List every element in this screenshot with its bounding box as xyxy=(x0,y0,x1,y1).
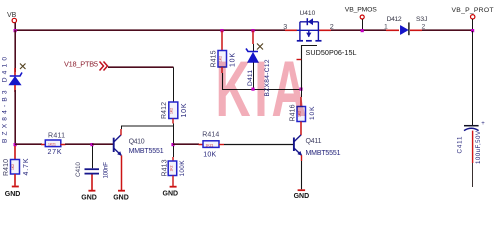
svg-text:10K: 10K xyxy=(203,151,216,158)
wire xyxy=(285,29,297,31)
DNP mark xyxy=(257,44,263,50)
svg-text:GND: GND xyxy=(294,193,310,200)
wire xyxy=(172,176,174,187)
svg-text:VB: VB xyxy=(7,12,17,19)
wire xyxy=(422,29,473,31)
capacitor C410 xyxy=(75,162,110,179)
wire xyxy=(301,161,303,189)
svg-text:GND: GND xyxy=(113,195,129,202)
wire xyxy=(252,31,254,45)
wire xyxy=(173,143,199,145)
svg-text:3: 3 xyxy=(283,22,287,31)
wire xyxy=(223,73,302,90)
svg-text:100uF,50V: 100uF,50V xyxy=(475,130,482,164)
diode D412 xyxy=(384,16,428,35)
wire xyxy=(331,29,386,31)
wire xyxy=(253,44,255,52)
wire xyxy=(92,146,94,168)
svg-text:10K: 10K xyxy=(181,103,188,117)
svg-text:GND: GND xyxy=(163,191,179,198)
svg-text:100nF: 100nF xyxy=(103,162,110,179)
svg-text:D412: D412 xyxy=(387,16,402,23)
node junction xyxy=(471,29,474,32)
svg-text:MMBT5551: MMBT5551 xyxy=(129,148,164,155)
wire emitter xyxy=(121,155,123,190)
wire xyxy=(300,97,302,107)
wire xyxy=(14,85,16,92)
svg-text:1K2: 1K2 xyxy=(170,165,174,171)
svg-text:R411: R411 xyxy=(48,133,65,140)
svg-text:V18_PTB5: V18_PTB5 xyxy=(64,60,98,69)
svg-text:27K: 27K xyxy=(48,149,62,156)
ground xyxy=(81,190,97,202)
svg-text:C411: C411 xyxy=(457,136,464,154)
svg-text:1K2: 1K2 xyxy=(11,164,15,170)
resistor R415 xyxy=(211,50,237,67)
transistor Q410 xyxy=(114,135,164,156)
wire xyxy=(224,144,293,146)
svg-text:Q411: Q411 xyxy=(306,138,322,145)
wire xyxy=(319,29,331,31)
watermark xyxy=(216,45,311,133)
svg-text:VB_P_PROT: VB_P_PROT xyxy=(452,7,494,14)
wire xyxy=(472,31,474,125)
svg-text:Q410: Q410 xyxy=(129,139,145,146)
node junction xyxy=(171,143,174,146)
wire xyxy=(14,146,16,160)
svg-text:1K21: 1K21 xyxy=(206,143,214,147)
wire left rail xyxy=(14,30,16,72)
svg-text:+: + xyxy=(481,121,485,127)
wire xyxy=(173,67,175,102)
svg-text:2: 2 xyxy=(422,24,426,31)
wire xyxy=(472,163,474,187)
svg-text:R413: R413 xyxy=(162,159,169,176)
svg-text:4.7K: 4.7K xyxy=(23,158,30,175)
wire top rail xyxy=(14,29,285,31)
svg-text:2: 2 xyxy=(330,22,334,31)
ground xyxy=(5,186,21,199)
node junction xyxy=(14,143,17,146)
ground xyxy=(294,189,310,200)
wire xyxy=(386,29,399,31)
svg-text:MMBT5551: MMBT5551 xyxy=(306,150,341,157)
wire emitter xyxy=(301,155,303,161)
resistor R412 xyxy=(161,102,188,119)
node junction D411 top xyxy=(251,29,254,32)
wire xyxy=(122,126,174,129)
svg-text:1: 1 xyxy=(384,24,388,31)
DNP mark xyxy=(20,64,26,70)
svg-text:S3J: S3J xyxy=(416,16,428,23)
wire xyxy=(92,143,113,145)
svg-text:100K: 100K xyxy=(179,160,186,177)
node junction gate xyxy=(299,88,302,91)
svg-text:GND: GND xyxy=(5,191,21,198)
wire xyxy=(173,124,175,146)
node VB_P_PROT xyxy=(452,7,494,30)
node junction xyxy=(14,29,17,32)
wire xyxy=(108,66,174,68)
wire xyxy=(221,31,223,51)
node junction R415 top xyxy=(220,29,223,32)
wire xyxy=(91,175,93,191)
op U410 pmos xyxy=(283,10,356,57)
pin 1 tick xyxy=(297,59,302,61)
wire xyxy=(472,131,474,163)
resistor R413 xyxy=(162,159,186,176)
resistor R416 xyxy=(290,104,317,121)
node VB xyxy=(7,12,17,23)
wire xyxy=(14,174,16,186)
capacitor C411 xyxy=(457,121,486,164)
wire xyxy=(173,146,175,157)
node junction xyxy=(361,29,364,32)
net label V18_PTB5 xyxy=(64,60,108,71)
svg-text:SUD50P06-15L: SUD50P06-15L xyxy=(306,48,357,57)
svg-text:C410: C410 xyxy=(75,162,82,177)
svg-text:1K21: 1K21 xyxy=(48,143,56,147)
node junction xyxy=(251,88,254,91)
svg-text:GND: GND xyxy=(81,195,97,202)
wire xyxy=(221,67,223,73)
wire xyxy=(253,63,255,91)
wire xyxy=(172,119,174,124)
svg-text:KIA: KIA xyxy=(216,45,311,133)
wire xyxy=(300,122,302,136)
ground xyxy=(163,186,179,198)
diode D410 xyxy=(2,57,23,143)
svg-text:1K2: 1K2 xyxy=(170,108,174,114)
wire xyxy=(219,144,224,146)
transistor Q411 xyxy=(294,135,341,157)
resistor R410 xyxy=(3,158,30,176)
node junction xyxy=(90,143,93,146)
wire xyxy=(172,157,174,161)
resistor R414 xyxy=(202,131,219,158)
ground xyxy=(113,190,129,202)
svg-text:VB_PMOS: VB_PMOS xyxy=(345,7,377,14)
svg-text:R410: R410 xyxy=(3,159,10,176)
svg-text:U410: U410 xyxy=(300,10,316,17)
svg-text:R412: R412 xyxy=(161,102,168,119)
wire xyxy=(14,23,16,31)
wire collector xyxy=(120,129,122,135)
diode D411 zener xyxy=(246,49,271,97)
wire xyxy=(410,29,422,31)
wire xyxy=(301,89,303,97)
node VB_PMOS xyxy=(345,7,377,30)
wire gate xyxy=(302,46,318,90)
resistor R411 xyxy=(15,133,91,156)
